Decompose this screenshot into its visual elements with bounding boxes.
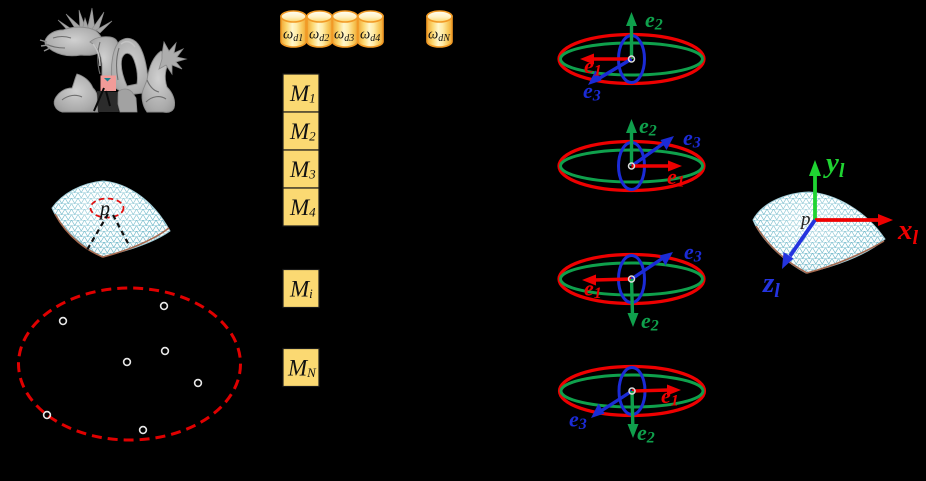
svg-text:yl: yl	[823, 147, 845, 182]
svg-text:zl: zl	[762, 267, 780, 302]
svg-text:e3: e3	[683, 125, 701, 152]
svg-text:e1: e1	[584, 53, 602, 80]
svg-text:e2: e2	[645, 7, 663, 34]
svg-text:e2: e2	[637, 420, 655, 447]
svg-text:xl: xl	[897, 214, 919, 249]
svg-text:e3: e3	[684, 239, 702, 266]
svg-text:e1: e1	[661, 383, 679, 410]
svg-text:e1: e1	[667, 164, 685, 191]
svg-text:e2: e2	[641, 308, 659, 335]
svg-text:p: p	[98, 198, 110, 220]
svg-text:e2: e2	[639, 113, 657, 140]
svg-text:p: p	[799, 209, 811, 230]
